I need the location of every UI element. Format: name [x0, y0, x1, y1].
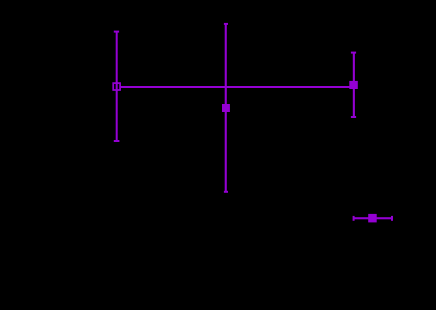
legend sample: horizontal error bar line	[354, 217, 393, 219]
node P2: top cap	[224, 23, 228, 25]
node P3: filled square marker	[349, 81, 358, 89]
node P2: vertical error bar line	[225, 23, 227, 192]
node P3: bottom cap	[351, 116, 356, 118]
node P2: filled square marker	[222, 104, 230, 112]
node P1: open square marker	[113, 83, 120, 90]
node P3: vertical error bar line	[353, 52, 355, 118]
node P1: vertical error bar line over marker	[116, 82, 118, 91]
node P1: vertical error bar line	[116, 31, 118, 142]
node P1: bottom cap	[114, 140, 120, 142]
node P3: top cap	[351, 52, 356, 54]
wire: horizontal line from point 1 to point 3	[120, 86, 354, 88]
legend sample: left cap	[353, 216, 355, 221]
node P1: top cap	[114, 31, 119, 33]
legend sample: filled square marker	[368, 214, 377, 223]
node P2: bottom cap	[224, 191, 228, 193]
legend sample: right cap	[391, 216, 393, 221]
